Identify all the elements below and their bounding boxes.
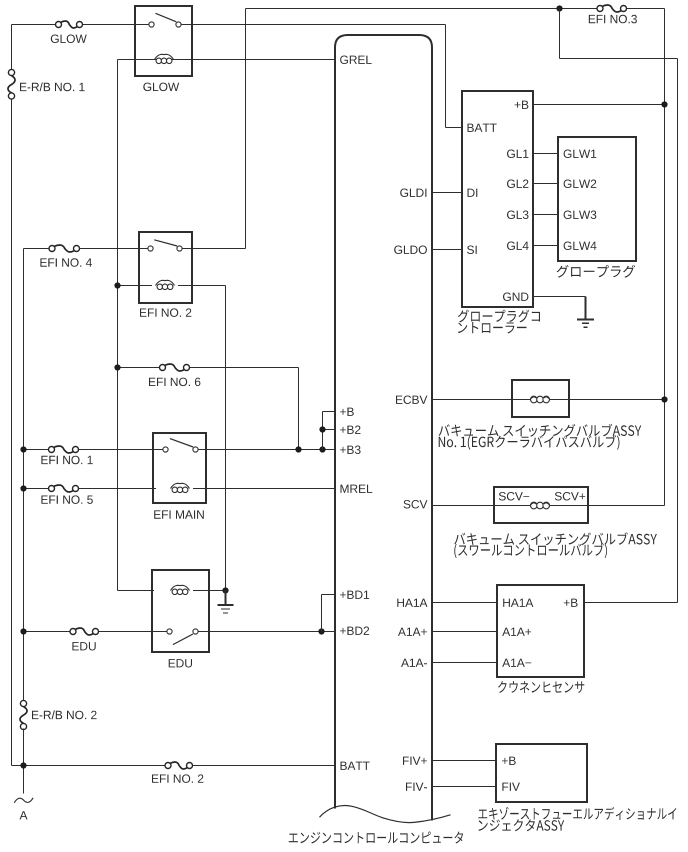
air fuel ratio sensor box — [497, 585, 584, 677]
pin GLW3 — [564, 211, 597, 220]
label fuse EDU — [72, 642, 95, 650]
wire EFI NO. 1 run — [24, 449, 169, 451]
relay EDU coil — [171, 585, 190, 594]
relay EFI MAIN coil — [171, 483, 190, 492]
wire vertical x245 — [245, 9, 247, 249]
pin FIV+ — [403, 757, 427, 765]
node junction ECBV rail — [661, 396, 667, 402]
wire top bus — [246, 8, 665, 10]
pin BATT controller — [468, 124, 497, 132]
wire GLOW relay output — [181, 24, 446, 26]
wire ground rail x225 — [225, 286, 227, 591]
wire vertical x559 — [559, 9, 561, 59]
label fuse GLOW — [51, 35, 87, 44]
pin +B controller — [515, 101, 529, 109]
node junction top bus — [556, 5, 562, 11]
pin MREL — [341, 485, 373, 493]
exhaust fuel addition injector box — [496, 744, 587, 802]
wire EFI NO. 6 run — [118, 367, 299, 369]
wire left rail 2 — [23, 249, 25, 702]
wire ECBV run — [432, 399, 665, 401]
wire EFI NO. 2 coil left — [118, 285, 153, 287]
pin GLW2 — [564, 180, 597, 189]
pin BATT ECU — [341, 762, 370, 770]
connector E-R/B NO. 2 — [20, 700, 27, 729]
wire EFI NO. 2 coil right — [178, 285, 226, 287]
pin GL1 — [507, 150, 528, 159]
wire GL2 — [533, 183, 558, 185]
wire vertical +BD tie — [321, 595, 323, 632]
pin ECBV — [396, 396, 427, 405]
pin A1A+ sensor — [502, 628, 531, 636]
wire vertical x298 — [298, 368, 300, 450]
pin SCV — [404, 500, 428, 509]
vacuum switching valve No.1 box — [512, 380, 569, 417]
pin GL3 — [507, 211, 529, 220]
fuse EFI NO. 2 bottom — [165, 762, 193, 769]
wire GLDI — [432, 192, 462, 194]
glow plug assembly box — [558, 137, 636, 261]
wire A1A+ — [432, 631, 497, 633]
pin +BD1 — [340, 591, 369, 599]
label fuse EFI NO. 2 bottom — [152, 774, 203, 783]
pin +B sensor — [564, 599, 578, 607]
label fuse EFI NO. 6 — [149, 378, 200, 387]
ECU (engine control computer) outline — [335, 35, 432, 821]
node junction EDU coil ground — [222, 587, 228, 593]
node junction x298 +B3 — [295, 446, 301, 452]
node junction rail2 bottom — [20, 762, 26, 768]
label relay EDU — [169, 659, 192, 667]
relay EFI MAIN box — [153, 433, 206, 503]
relay GLOW box — [135, 6, 192, 76]
pin +B injector — [502, 757, 516, 765]
wire FIV- — [432, 786, 496, 788]
fuse EFI NO.3 — [597, 5, 627, 12]
pin GLDO — [394, 246, 427, 255]
label ECU — [289, 832, 463, 844]
label E-R/B NO. 1 — [20, 82, 85, 91]
pin +B3 — [340, 446, 361, 455]
ground G2 glow controller — [577, 297, 594, 328]
vacuum switching valve swirl box — [494, 487, 588, 523]
node junction +B2 — [319, 426, 325, 432]
wire right rail x664 — [664, 9, 666, 506]
node junction rail2 EFI NO.5 — [20, 485, 26, 491]
relay EFI NO. 2 coil — [156, 280, 175, 289]
wire sensor +B — [584, 602, 678, 604]
wire SCV run — [432, 505, 665, 507]
pin GREL — [340, 56, 372, 65]
fuse EFI NO. 1 — [49, 446, 79, 453]
wire controller BATT feed — [446, 127, 463, 129]
wire controller +B — [533, 104, 665, 106]
relay EFI MAIN switch blade — [170, 439, 193, 447]
valve No.1 solenoid coil — [530, 396, 550, 403]
pin HA1A sensor — [503, 599, 533, 607]
label fuse EFI NO.3 — [589, 15, 637, 23]
label glow plug controller line2 — [458, 322, 527, 333]
node junction coil rail x117 — [114, 282, 120, 288]
node junction rail2 EDU — [20, 628, 26, 634]
wire +B2 stub — [323, 429, 336, 431]
fuse EDU — [70, 628, 99, 635]
label glow plug assembly — [557, 265, 636, 278]
wire GL1 — [533, 153, 558, 155]
wire EDU fuse run — [24, 631, 167, 633]
label relay EFI NO. 2 — [140, 308, 191, 317]
wire horizontal y58 — [560, 58, 678, 60]
fuse EFI NO. 5 — [49, 485, 79, 492]
label node A — [20, 811, 28, 819]
label swirl valve line1 — [454, 532, 657, 545]
wire MREL — [193, 488, 335, 490]
relay EFI NO. 2 switch blade — [154, 240, 177, 246]
wire left rail 1 upper — [11, 25, 13, 71]
relay EFI MAIN switch contacts — [163, 447, 198, 452]
label injector line1 — [478, 807, 676, 820]
wire GND run — [533, 296, 586, 298]
wire bottom bus — [12, 765, 336, 767]
pin FIV- — [406, 783, 427, 791]
relay EDU switch blade — [173, 634, 193, 645]
wire EDU output to +BD2 — [198, 631, 335, 633]
label valve1 line2 — [439, 435, 620, 450]
wire EDU coil left — [118, 590, 155, 592]
wire left rail 2 below E-R/B — [23, 729, 25, 794]
wire +BD1 stub — [322, 594, 336, 596]
swirl valve solenoid coil — [530, 502, 550, 509]
node junction +BD tie — [318, 628, 324, 634]
wire HA1A — [432, 602, 497, 604]
node junction +B rail — [661, 101, 667, 107]
label E-R/B NO. 2 — [32, 710, 97, 719]
wire GLOW fuse feed — [12, 24, 150, 26]
label relay GLOW — [143, 83, 179, 92]
pin GL4 — [507, 242, 529, 251]
wire +B stub — [323, 411, 336, 413]
wire GND drop — [585, 297, 587, 320]
label fuse EFI NO. 4 — [40, 258, 92, 267]
wire EFI NO.4 run — [24, 248, 150, 250]
relay EFI NO. 2 switch contacts — [148, 246, 182, 251]
relay GLOW switch blade — [156, 13, 177, 21]
pin GLW4 — [564, 242, 597, 251]
label glow plug controller line1 — [458, 310, 540, 323]
fuse EFI NO. 6 — [160, 364, 190, 371]
pin HA1A ECU — [397, 599, 427, 607]
relay EDU switch contacts — [167, 629, 198, 634]
pin GLDI — [400, 189, 426, 198]
wire left rail 1 lower — [11, 99, 13, 765]
wire right rail x677 — [677, 59, 679, 603]
pin GL2 — [507, 180, 528, 189]
label swirl valve line2 — [454, 543, 607, 558]
relay EFI NO. 2 box — [139, 232, 192, 303]
wire FIV+ — [432, 760, 496, 762]
fuse EFI NO. 4 — [49, 245, 80, 252]
pin A1A+ ECU — [398, 628, 427, 636]
wire vertical +B tie — [322, 412, 324, 450]
node junction x322 +B3 — [319, 446, 325, 452]
wire GL3 — [533, 214, 558, 216]
pin A1A- ECU — [401, 659, 427, 667]
label fuse EFI NO. 5 — [41, 495, 92, 504]
ECU bottom wave — [320, 805, 451, 822]
glow plug controller box — [462, 91, 533, 307]
relay GLOW coil — [155, 54, 174, 63]
pin DI — [468, 189, 478, 197]
label injector line2 — [478, 819, 564, 831]
pin GND — [503, 293, 528, 302]
wire A1A- — [432, 662, 497, 664]
ground G1 EDU coil — [218, 591, 234, 614]
wire EFI NO. 2 relay output — [182, 248, 246, 250]
wire GL4 — [533, 245, 558, 247]
pin +B2 — [340, 426, 360, 434]
wire EDU coil right — [193, 590, 226, 592]
wire GLDO — [432, 249, 462, 251]
relay EDU box — [152, 570, 209, 652]
relay GLOW switch contacts — [149, 22, 181, 27]
pin SI — [467, 246, 477, 255]
fuse GLOW — [56, 21, 83, 28]
wire EFI NO. 5 run — [24, 488, 157, 490]
label fuse EFI NO. 1 — [41, 456, 92, 465]
node junction rail2 EFI NO.1 — [20, 446, 26, 452]
wire GREL net — [118, 59, 336, 61]
pin +B — [340, 408, 354, 416]
wire rail x117 GLOW coil to EDU coil — [117, 60, 119, 591]
label relay EFI MAIN — [154, 510, 204, 518]
wire EFI MAIN output to +B3 — [198, 449, 335, 451]
node A break symbol — [14, 798, 33, 803]
label air fuel sensor — [498, 681, 584, 693]
node junction EFI NO.6 tap — [114, 364, 120, 370]
pin SCV+ — [555, 492, 585, 501]
wire vertical x445 — [445, 25, 447, 128]
pin +BD2 — [340, 627, 369, 635]
pin SCV- — [499, 492, 529, 501]
pin FIV — [502, 783, 520, 791]
pin A1A- sensor — [502, 659, 531, 667]
pin GLW1 — [564, 150, 597, 159]
connector E-R/B NO. 1 — [8, 69, 15, 99]
label valve1 line1 — [439, 424, 642, 437]
